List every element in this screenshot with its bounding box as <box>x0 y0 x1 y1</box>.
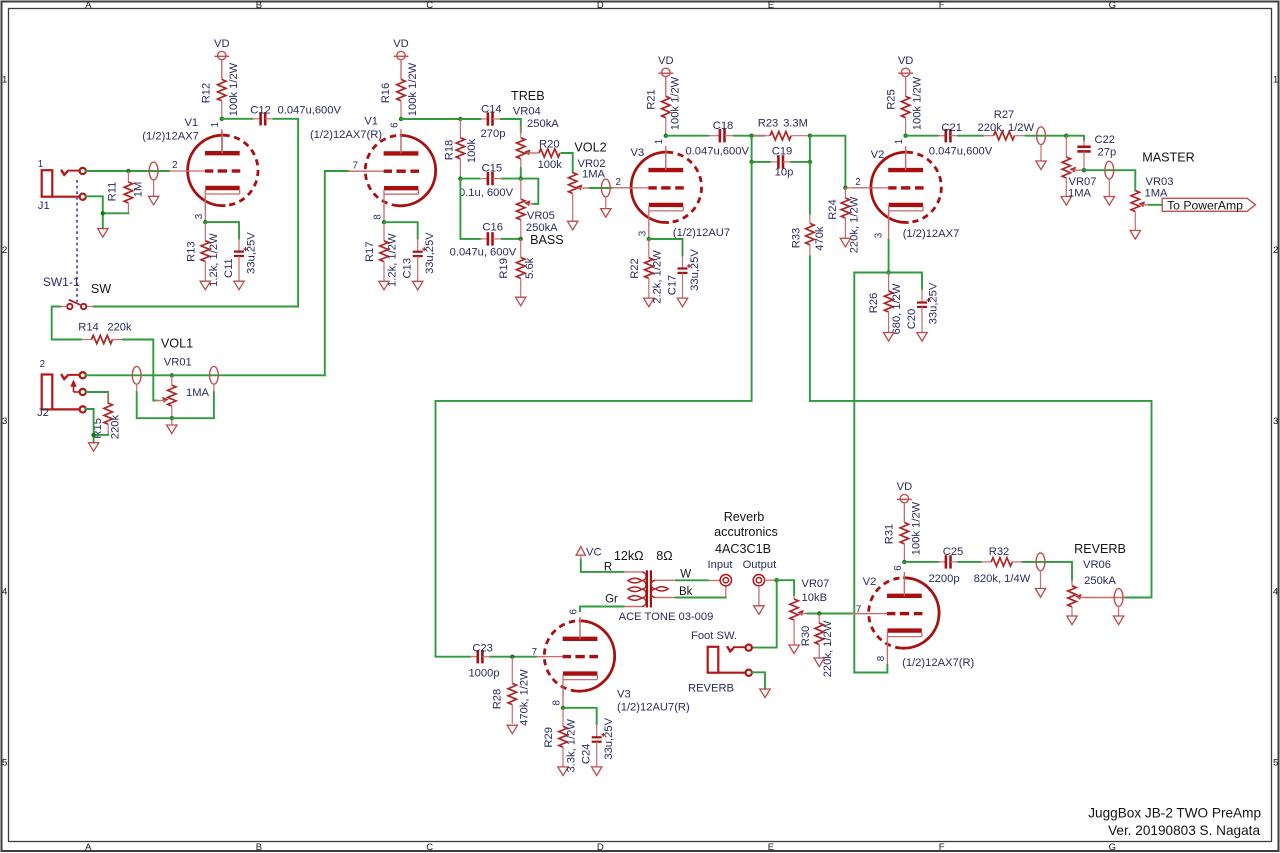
shield ellipse VOL2 <box>601 179 610 209</box>
junction node R11 top <box>126 169 130 173</box>
pin 2 lead V3a <box>612 187 630 189</box>
wire V2b plate to C25 <box>904 561 938 563</box>
wire V2a plate to C21 <box>906 135 939 137</box>
svg-text:1000p: 1000p <box>468 668 499 680</box>
wire VR02 wiper to V3 grid <box>590 187 612 189</box>
svg-text:Ver. 20190803 S. Nagata: Ver. 20190803 S. Nagata <box>1108 823 1260 838</box>
ground R17 <box>379 281 389 290</box>
svg-text:R23: R23 <box>758 117 779 129</box>
svg-text:7: 7 <box>352 160 357 171</box>
potentiometer VR01 <box>155 385 176 406</box>
junction node VOL1 bottom <box>170 416 174 420</box>
resistor R30 <box>815 614 823 658</box>
svg-text:B: B <box>256 0 262 11</box>
svg-text:Gr: Gr <box>605 593 618 605</box>
svg-text:(1/2)12AU7(R): (1/2)12AU7(R) <box>617 701 690 713</box>
svg-text:470k: 470k <box>814 226 826 251</box>
wire C14 to VR04 <box>501 119 521 132</box>
svg-text:100k: 100k <box>538 159 563 171</box>
svg-text:VD: VD <box>393 38 409 50</box>
svg-text:1MA: 1MA <box>1068 187 1092 199</box>
svg-text:R19: R19 <box>498 258 510 279</box>
svg-text:R16: R16 <box>380 83 392 104</box>
svg-text:R25: R25 <box>885 89 897 110</box>
svg-text:6: 6 <box>893 565 904 571</box>
capacitor C11 <box>234 239 248 282</box>
connector Foot SW jack <box>708 645 752 676</box>
svg-text:1: 1 <box>1273 75 1278 86</box>
C16 right wire <box>501 238 521 240</box>
triode V1 (1/2)12AX7(R) unit B <box>348 132 436 210</box>
VR07R bottom stub <box>793 620 795 645</box>
svg-text:SW1-1: SW1-1 <box>43 275 80 289</box>
svg-text:R26: R26 <box>868 293 880 314</box>
pin 6 lead V3b <box>579 617 581 638</box>
svg-text:820k, 1/4W: 820k, 1/4W <box>974 573 1031 585</box>
svg-text:R28: R28 <box>492 689 504 710</box>
junction node C22 bottom <box>1082 168 1086 172</box>
svg-text:R: R <box>604 562 612 574</box>
VR07R top stub <box>793 595 795 599</box>
ground J2 <box>88 443 98 452</box>
wire C13 link <box>384 222 418 238</box>
svg-text:1: 1 <box>2 75 7 86</box>
svg-text:(1/2)12AX7(R): (1/2)12AX7(R) <box>310 129 382 141</box>
ground VR01 <box>167 425 177 434</box>
svg-text:100k: 100k <box>466 138 478 163</box>
junction node cathode R22 <box>647 237 651 241</box>
svg-text:33u,25V: 33u,25V <box>928 282 940 324</box>
svg-text:C19: C19 <box>772 145 793 157</box>
ground foot switch <box>760 689 770 698</box>
junction node VOL1 top <box>170 373 174 377</box>
svg-text:VD: VD <box>214 38 230 50</box>
power flag VD (V3a) <box>658 55 674 96</box>
wire V1a plate to C12 <box>222 118 253 120</box>
wire R33 bottom wire <box>809 256 811 401</box>
resistor R12 <box>218 60 226 119</box>
svg-text:C17: C17 <box>667 275 679 296</box>
svg-text:G: G <box>1109 0 1116 11</box>
VR01 top stub <box>171 375 173 385</box>
svg-text:6: 6 <box>569 609 580 615</box>
svg-text:C: C <box>426 842 433 853</box>
svg-text:100k 1/2W: 100k 1/2W <box>228 62 240 116</box>
wire J1 tip to V1a grid <box>86 170 169 172</box>
Output pin lead <box>765 579 777 581</box>
ground VR06 <box>1067 616 1077 625</box>
ground C11 <box>234 281 244 290</box>
resistor R11 <box>124 171 132 213</box>
wire cathode bus left <box>854 272 888 274</box>
ground R13 <box>200 281 210 290</box>
svg-text:To PowerAmp: To PowerAmp <box>1167 198 1243 212</box>
svg-text:V1: V1 <box>184 117 198 129</box>
svg-text:C15: C15 <box>482 163 503 175</box>
connector J2 <box>42 372 86 412</box>
wire V2a cathode drop <box>888 240 890 273</box>
svg-text:V2: V2 <box>871 149 885 161</box>
hierarchical label To PowerAmp <box>1162 198 1255 211</box>
pin 6 lead V1b <box>400 129 402 153</box>
wire C11 link <box>205 222 239 238</box>
wire C12 to SW line <box>94 119 298 307</box>
svg-text:F: F <box>939 0 945 11</box>
capacitor C25 <box>938 555 958 568</box>
svg-text:5.6k: 5.6k <box>524 257 536 279</box>
VR05 top stub <box>520 179 522 200</box>
svg-text:C20: C20 <box>906 309 918 330</box>
svg-text:BASS: BASS <box>530 233 564 247</box>
Output ground lead <box>758 586 760 606</box>
svg-text:R32: R32 <box>989 546 1010 558</box>
svg-text:270p: 270p <box>481 128 506 140</box>
svg-text:C12: C12 <box>250 104 271 116</box>
junction node V1a plate <box>220 117 224 121</box>
junction node cathode R13 <box>203 220 207 224</box>
svg-text:8Ω: 8Ω <box>656 549 672 563</box>
svg-text:R30: R30 <box>800 626 812 647</box>
ground Output <box>754 606 764 615</box>
pin 8 lead V3b <box>562 691 564 708</box>
power flag VC <box>576 547 601 560</box>
ground R29 <box>558 767 568 776</box>
svg-text:C11: C11 <box>223 258 235 278</box>
svg-text:C22: C22 <box>1095 134 1116 146</box>
svg-text:Reverb: Reverb <box>724 510 765 524</box>
svg-text:100k 1/2W: 100k 1/2W <box>910 501 922 555</box>
wire VR05 wiper loop <box>521 179 539 204</box>
svg-text:1MA: 1MA <box>582 169 606 181</box>
wire R20 to VR02 <box>562 153 573 173</box>
svg-text:B: B <box>256 842 262 853</box>
svg-text:8: 8 <box>552 700 563 706</box>
wire C24 link <box>563 708 597 724</box>
potentiometer VR05 BASS <box>517 199 534 220</box>
ground VR02 <box>568 221 578 230</box>
triode V2 (1/2)12AX7 unit A <box>853 148 942 226</box>
svg-text:220k: 220k <box>109 414 121 439</box>
wire VR04 to C15 node <box>520 168 522 179</box>
svg-text:220k: 220k <box>107 322 132 334</box>
pin 2 lead V2a <box>845 187 869 189</box>
svg-text:1.2k, 1/2W: 1.2k, 1/2W <box>387 233 399 287</box>
wire R32 to VR06 <box>1022 562 1072 580</box>
resistor R28 <box>508 657 516 724</box>
svg-text:10kB: 10kB <box>802 592 828 604</box>
svg-text:VR07: VR07 <box>1069 176 1097 188</box>
resistor R32 <box>981 558 1022 566</box>
svg-text:SW: SW <box>91 282 111 296</box>
potentiometer VR07 10kB <box>790 599 811 620</box>
svg-text:470k, 1/2W: 470k, 1/2W <box>519 669 531 726</box>
junction node V2a cathode <box>886 270 890 274</box>
svg-text:33u,25V: 33u,25V <box>603 717 615 759</box>
svg-text:2: 2 <box>855 177 860 188</box>
svg-text:0.047u,600V: 0.047u,600V <box>685 146 749 158</box>
svg-text:(1/2)12AX7(R): (1/2)12AX7(R) <box>902 657 974 669</box>
svg-text:VR07: VR07 <box>801 578 829 590</box>
capacitor C22 <box>1077 140 1090 170</box>
junction node V2a grid <box>843 186 847 190</box>
capacitor C16 <box>480 232 501 245</box>
VR04 bottom stub <box>520 159 522 170</box>
svg-text:R12: R12 <box>201 83 213 104</box>
resistor R26 <box>884 273 892 333</box>
connector Output <box>753 575 764 586</box>
wire R14 to VOL1 wiper <box>123 340 157 401</box>
ground C20 <box>917 333 927 342</box>
capacitor C23 <box>470 650 490 663</box>
ground R30 <box>814 658 824 667</box>
resistor R31 <box>900 503 908 562</box>
wire R15 bottom <box>94 435 109 443</box>
svg-text:6: 6 <box>389 122 400 128</box>
svg-text:R21: R21 <box>646 89 658 110</box>
ground R24 <box>840 238 850 247</box>
junction node J2 ground <box>91 433 95 437</box>
power flag VD (V1a) <box>214 38 230 79</box>
shield ellipse J2 right <box>210 366 219 392</box>
capacitor C20 <box>917 289 931 333</box>
VR05 bottom stub <box>520 220 522 239</box>
resistor R16 <box>397 60 405 119</box>
wire Output to foot switch <box>752 580 777 647</box>
svg-text:R14: R14 <box>78 322 99 334</box>
junction node V2a plate <box>903 134 907 138</box>
resistor R21 <box>662 77 670 136</box>
svg-text:2: 2 <box>172 160 177 171</box>
junction node cathode R29 <box>561 706 565 710</box>
svg-text:4AC3C1B: 4AC3C1B <box>715 542 771 556</box>
svg-text:1: 1 <box>38 159 43 170</box>
svg-text:R24: R24 <box>827 199 839 220</box>
svg-text:R11: R11 <box>107 182 119 202</box>
junction node Output <box>775 578 779 582</box>
wire R11 bottom wire <box>103 213 129 228</box>
ground R19 <box>516 297 526 306</box>
svg-text:2: 2 <box>615 177 620 188</box>
svg-text:C18: C18 <box>713 120 734 132</box>
svg-text:C21: C21 <box>941 122 962 134</box>
svg-text:ACE TONE 03-009: ACE TONE 03-009 <box>619 611 714 623</box>
ground C17 <box>677 298 687 307</box>
wire C19 right drop <box>809 136 811 162</box>
capacitor C24 <box>592 724 606 767</box>
svg-text:3.3M: 3.3M <box>783 117 808 129</box>
shield ellipse master ground <box>1104 197 1114 206</box>
svg-text:VR05: VR05 <box>527 210 555 222</box>
svg-text:VC: VC <box>586 547 602 559</box>
wire C19 left wire <box>752 161 771 163</box>
wire C18 to R23 <box>734 135 764 137</box>
pin 8 lead V1b <box>383 205 385 222</box>
VR07M bottom stub <box>1065 178 1067 197</box>
pin 7 lead V3b <box>536 656 545 658</box>
svg-text:W: W <box>680 569 691 581</box>
connector Input <box>720 575 731 586</box>
wire net A riser <box>436 162 752 657</box>
resistor R18 <box>456 119 464 179</box>
capacitor C12 <box>253 112 274 125</box>
svg-text:J2: J2 <box>37 407 49 419</box>
svg-text:0.047u, 600V: 0.047u, 600V <box>450 246 517 258</box>
junction node R23 right <box>808 134 812 138</box>
wire cathode bus right <box>889 273 922 289</box>
pin 1 lead V2a <box>905 146 907 170</box>
wire J2 tip to VOL1 line <box>86 374 325 376</box>
junction node tone top <box>458 117 462 121</box>
svg-text:100k 1/2W: 100k 1/2W <box>407 62 419 116</box>
svg-text:1: 1 <box>654 139 665 144</box>
junction node master top <box>1064 134 1068 138</box>
svg-text:REVERB: REVERB <box>1074 542 1126 556</box>
svg-text:2: 2 <box>2 245 7 256</box>
svg-text:0.047u,600V: 0.047u,600V <box>278 104 342 116</box>
shield ellipse VR06 ground <box>1113 616 1123 625</box>
pin 1 lead V1a <box>221 129 223 153</box>
shield ellipse R27 ground <box>1036 161 1046 170</box>
wire VOL1 to V1b grid riser <box>325 171 349 375</box>
svg-text:2: 2 <box>1273 245 1278 256</box>
switch pin stub left <box>60 306 67 308</box>
shield ellipse J2 left <box>132 366 141 391</box>
wire VOL1 bottom bus <box>137 392 214 418</box>
svg-text:REVERB: REVERB <box>688 682 734 694</box>
shield ellipse VOL2 ground <box>601 209 611 218</box>
resistor R23 <box>752 132 810 140</box>
shield ellipse master <box>1105 161 1114 196</box>
svg-text:C23: C23 <box>472 642 493 654</box>
svg-text:4: 4 <box>2 587 7 598</box>
ground J1 <box>98 229 108 238</box>
ground R22 <box>644 298 654 307</box>
VR04 top stub <box>520 126 522 138</box>
wire C23 to V3b grid <box>490 656 536 658</box>
svg-text:5: 5 <box>2 757 7 768</box>
svg-text:VR04: VR04 <box>513 106 541 118</box>
triode V3 (1/2)12AU7(R) unit B <box>527 617 615 695</box>
triode V2 (1/2)12AX7(R) unit B <box>851 574 939 652</box>
svg-text:V2: V2 <box>863 576 877 588</box>
resistor R17 <box>380 222 388 281</box>
VR06 wiper wire <box>1085 597 1125 599</box>
VR01 bottom stub <box>171 406 173 418</box>
svg-text:A: A <box>85 842 92 853</box>
power flag VD (V2b) <box>897 481 913 522</box>
svg-text:(1/2)12AX7: (1/2)12AX7 <box>142 131 199 143</box>
wire C21 to R27 <box>958 135 983 137</box>
svg-text:250kA: 250kA <box>527 118 559 130</box>
shield ellipse J1 <box>149 162 158 196</box>
resistor R24 <box>841 188 849 239</box>
svg-text:2.2k, 1/2W: 2.2k, 1/2W <box>651 250 663 304</box>
junction node cathode R17 <box>382 220 386 224</box>
svg-text:VD: VD <box>658 55 674 67</box>
wire R33 top wire <box>809 162 811 214</box>
pin 3 lead V3a <box>648 222 650 239</box>
svg-text:3.3k, 1/2W: 3.3k, 1/2W <box>566 719 578 773</box>
svg-text:100k 1/2W: 100k 1/2W <box>912 76 924 130</box>
svg-text:1MA: 1MA <box>1144 187 1168 199</box>
resistor R25 <box>901 77 909 136</box>
shield ellipse R32 <box>1036 553 1045 589</box>
svg-text:100k 1/2W: 100k 1/2W <box>670 76 682 130</box>
VR02 bottom stub <box>572 194 574 222</box>
svg-text:(1/2)12AX7: (1/2)12AX7 <box>903 228 960 240</box>
wire C25 to R32 <box>958 561 981 563</box>
svg-text:Output: Output <box>743 559 777 571</box>
power flag VD (V2a) <box>898 55 914 96</box>
svg-text:F: F <box>939 842 945 853</box>
svg-text:C14: C14 <box>481 104 502 116</box>
pin 3 lead V1a <box>204 205 206 222</box>
svg-text:33u,25V: 33u,25V <box>424 232 436 274</box>
wire J2 sleeve ground <box>86 409 94 435</box>
svg-text:3: 3 <box>1273 416 1278 427</box>
wire J1 sleeve ground wire <box>86 196 103 213</box>
wire V1b plate to tone stack <box>401 118 460 120</box>
connector J1 <box>42 168 86 200</box>
wire V3a plate to C18 <box>666 135 709 137</box>
pin 3 lead V2a <box>888 206 890 241</box>
potentiometer VR04 TREB <box>517 138 538 159</box>
svg-text:R13: R13 <box>185 241 197 262</box>
C15 left wire <box>460 178 480 180</box>
svg-text:VOL2: VOL2 <box>574 141 606 155</box>
wire V2b cathode wire <box>854 665 887 673</box>
VR06 bottom stub <box>1071 607 1073 616</box>
svg-text:VR06: VR06 <box>1083 559 1111 571</box>
wire VC to transformer R <box>581 560 624 572</box>
svg-text:27p: 27p <box>1098 146 1117 158</box>
svg-text:12kΩ: 12kΩ <box>614 549 644 563</box>
svg-text:Input: Input <box>708 559 734 571</box>
switch pin stub right <box>87 306 95 308</box>
wire transformer Bk wire <box>676 597 726 599</box>
svg-text:8: 8 <box>373 214 384 220</box>
svg-text:G: G <box>1109 842 1116 853</box>
capacitor C17 <box>678 255 692 298</box>
Input ground lead <box>725 586 727 598</box>
svg-text:3: 3 <box>2 416 7 427</box>
wire tone top to C14 <box>460 118 480 120</box>
potentiometer VR02 VOL2 <box>569 173 590 194</box>
svg-text:1.2k, 1/2W: 1.2k, 1/2W <box>208 233 220 287</box>
transformer T1 ACE TONE 03-009 <box>624 570 677 607</box>
svg-text:D: D <box>597 842 604 853</box>
ground VR07M <box>1061 197 1071 206</box>
VR03 bottom stub <box>1134 212 1136 231</box>
wire Output to VR07 pot <box>777 580 794 595</box>
svg-text:C13: C13 <box>402 258 414 279</box>
ground C13 <box>413 281 423 290</box>
potentiometer VR07 1MA <box>1062 157 1083 178</box>
wire V3b plate to transformer Gr <box>580 607 624 612</box>
resistor R33 <box>806 214 814 256</box>
potentiometer VR03 MASTER <box>1131 191 1152 212</box>
svg-text:5: 5 <box>1273 757 1278 768</box>
capacitor C21 <box>938 129 958 142</box>
svg-text:R27: R27 <box>994 109 1015 121</box>
wire R23 right to V2a grid <box>810 136 846 188</box>
svg-text:1: 1 <box>894 139 905 144</box>
junction node V3a plate <box>664 134 668 138</box>
svg-text:3: 3 <box>194 213 205 219</box>
svg-text:Bk: Bk <box>679 586 693 598</box>
svg-text:R29: R29 <box>543 727 555 748</box>
svg-text:680, 1/2W: 680, 1/2W <box>891 283 903 334</box>
